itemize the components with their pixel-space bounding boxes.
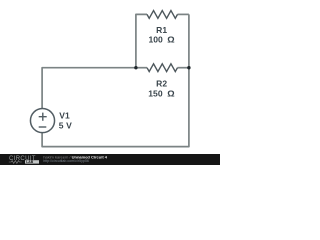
svg-text:LAB: LAB: [26, 160, 34, 164]
wire: source bottom to bottom-left corner, bottom wire, right vertical: [42, 14, 189, 146]
V1 plus sign: [39, 113, 47, 121]
node right junction: [187, 66, 190, 69]
svg-text:100: 100: [149, 35, 164, 45]
svg-text:150: 150: [148, 89, 163, 99]
svg-text:V1: V1: [59, 111, 70, 121]
wire: R1 right lead: [178, 13, 189, 15]
voltage source V1 circle: [30, 109, 54, 133]
CircuitLab logo: LAB box: [25, 160, 39, 163]
footer bar: [0, 154, 220, 165]
V1 minus sign: [39, 126, 47, 128]
svg-text:R2: R2: [156, 78, 167, 88]
resistor R2: [147, 64, 178, 72]
node left junction: [134, 66, 137, 69]
wire: left loop (top corner, down through source gap): [42, 68, 136, 109]
wire: R2 right lead: [178, 67, 189, 69]
svg-text:5 V: 5 V: [59, 121, 72, 131]
CircuitLab logo: squiggle: [9, 161, 22, 164]
wire: R2 left lead: [136, 67, 147, 69]
svg-text:Ω: Ω: [167, 89, 175, 99]
svg-text:R1: R1: [156, 25, 167, 35]
resistor R1: [147, 11, 178, 19]
svg-text:Ω: Ω: [167, 35, 175, 45]
wire: top branch left vertical and R1 left lead: [136, 14, 147, 67]
svg-text:http://circuitlab.com/c/r5yp56: http://circuitlab.com/c/r5yp56: [43, 159, 89, 163]
